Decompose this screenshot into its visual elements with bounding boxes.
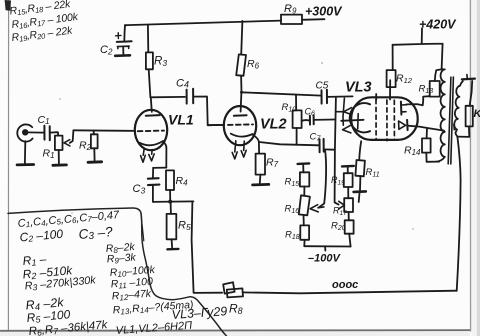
speaker K — [466, 106, 473, 127]
capacitor C1 — [44, 126, 49, 141]
capacitor C2 — [123, 25, 126, 41]
transformer T1 core — [448, 77, 453, 164]
tube VL1 anode — [151, 97, 152, 112]
node VL2 anode junction — [208, 90, 353, 208]
potentiometer R16 — [299, 195, 310, 215]
wire secondary to feedback — [457, 137, 461, 291]
svg-text:K: K — [474, 108, 480, 120]
resistor R2 — [93, 131, 95, 135]
ground (R2) — [93, 148, 95, 160]
wire grid line A — [335, 98, 339, 205]
svg-text:C4: C4 — [176, 78, 189, 90]
tube VL1 heater pins — [141, 149, 146, 163]
tube VL2 anode — [240, 92, 243, 111]
svg-text:C3: C3 — [133, 183, 146, 196]
resistor R18 — [300, 225, 309, 239]
resistor R11 — [359, 141, 361, 160]
svg-text:+300V: +300V — [305, 5, 343, 19]
svg-text:–100V: –100V — [308, 253, 341, 265]
resistor R10 — [295, 95, 297, 111]
transformer T1 primary — [437, 69, 445, 161]
wire B+ rail — [125, 19, 325, 25]
tube VL3 pin stub — [375, 94, 377, 100]
wire feedback line — [192, 202, 223, 293]
svg-text:VL2: VL2 — [260, 117, 287, 133]
scan speckles — [59, 26, 438, 311]
tube VL1 cathode — [140, 141, 163, 145]
node (R4/R5/C3) — [153, 200, 194, 203]
resistor R3 — [147, 25, 149, 52]
resistor R8 — [223, 282, 234, 293]
wire secondary bottom — [455, 130, 457, 137]
svg-text:VL3: VL3 — [345, 80, 372, 96]
tube VL1 grid — [138, 130, 164, 133]
resistor R14 — [422, 138, 431, 152]
page bottom edge — [0, 329, 470, 332]
resistor R9 — [281, 15, 302, 24]
page right edge — [469, 0, 471, 331]
svg-text:R3: R3 — [154, 56, 167, 69]
ground (R1) — [58, 150, 60, 164]
tube VL2 envelope — [224, 106, 256, 145]
tube VL3 grids dashed — [375, 100, 377, 140]
capacitor C5 — [322, 90, 328, 104]
tube VL3 anode-2 — [399, 121, 406, 129]
resistor R5 — [170, 202, 172, 214]
note top lines — [9, 0, 79, 44]
note values column 1 — [17, 209, 120, 336]
note values column 2 — [105, 241, 227, 336]
input jack X1 — [17, 124, 32, 141]
resistor R6 — [241, 21, 242, 55]
tube VL3 grid-1 arrow — [336, 108, 352, 115]
capacitor C4 — [187, 89, 194, 104]
wire grid line B — [319, 151, 326, 208]
tube VL2 grid — [228, 123, 253, 126]
notes cloud boundary — [8, 208, 227, 336]
resistor R7 — [256, 154, 265, 175]
resistor R19 — [344, 173, 353, 187]
ground (R11) — [354, 190, 366, 193]
wire feedback bottom — [243, 291, 457, 294]
svg-text:R5: R5 — [178, 220, 191, 233]
ground (input jack) — [24, 141, 26, 163]
resistor R20 — [345, 220, 354, 233]
svg-text:C5: C5 — [316, 81, 329, 92]
wire input to C1 — [28, 131, 45, 133]
transformer T1 secondary — [454, 81, 463, 129]
tube VL3 anode-1 — [400, 102, 403, 115]
wire terminal to speaker — [470, 81, 473, 106]
tube VL1 envelope — [135, 110, 167, 150]
potentiometer R17 — [344, 198, 353, 212]
svg-text:+420V: +420V — [419, 18, 457, 32]
wire R12 to VL3 — [389, 80, 391, 99]
wire +420V rail — [393, 28, 443, 69]
wire VL1 anode to C4 — [150, 96, 185, 98]
wire VL1 grid lead — [74, 129, 136, 132]
capacitor C6 — [302, 119, 310, 122]
tube VL2 cathode — [231, 134, 253, 137]
potentiometer R1 — [55, 136, 63, 150]
tube VL3 grid-2 arrow — [343, 125, 351, 132]
resistor R12 — [387, 70, 396, 87]
page left edge — [7, 0, 9, 330]
svg-text:oooc: oooc — [332, 279, 358, 291]
terminal bar (R15 top) — [298, 162, 310, 165]
resistor R13 — [435, 69, 442, 81]
tube VL2 heater pins — [232, 141, 237, 159]
wire -100V rail — [304, 246, 350, 250]
resistor R15 — [300, 172, 309, 186]
resistor R4 — [166, 170, 174, 190]
tube VL3 cathode arc — [350, 103, 370, 132]
svg-text:C7: C7 — [310, 132, 322, 143]
page corner mark — [5, 0, 11, 11]
ground (R7) — [259, 175, 262, 184]
tube VL3 filament — [343, 98, 344, 125]
wire VL2 anode to C5 — [242, 92, 322, 95]
tube VL3 envelope — [351, 97, 418, 140]
terminal bar (output) — [462, 77, 475, 80]
capacitor C7 — [259, 142, 319, 145]
capacitor C3 — [153, 168, 166, 178]
terminal bar (R19 top) — [342, 165, 354, 168]
svg-text:VL1: VL1 — [168, 112, 194, 128]
